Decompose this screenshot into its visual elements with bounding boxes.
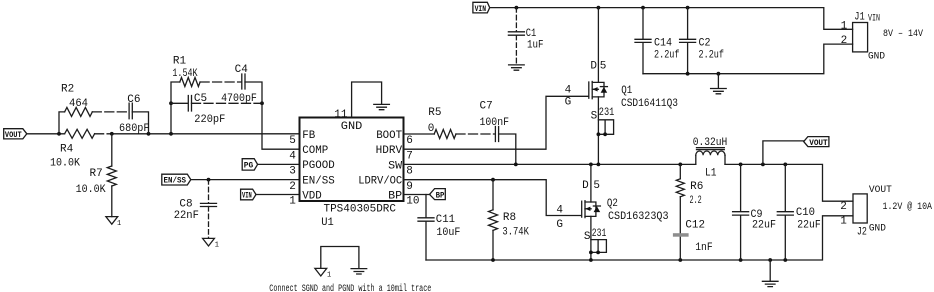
svg-text:C8: C8 — [179, 199, 192, 211]
inductor L1 — [693, 137, 728, 179]
svg-text:2: 2 — [289, 181, 296, 193]
ground (PGND rail) — [762, 260, 778, 287]
connector J2 — [853, 185, 932, 239]
svg-text:C12: C12 — [685, 219, 705, 231]
svg-text:C1: C1 — [526, 28, 537, 40]
svg-text:CSD16323Q3: CSD16323Q3 — [608, 211, 669, 223]
svg-text:22uF: 22uF — [797, 220, 821, 232]
svg-text:10.0K: 10.0K — [50, 157, 80, 169]
capacitor C8 — [174, 180, 217, 239]
svg-text:5: 5 — [593, 180, 600, 192]
svg-text:C14: C14 — [654, 38, 672, 50]
capacitor C2 — [680, 8, 724, 74]
svg-text:C10: C10 — [796, 207, 815, 219]
svg-text:VIN: VIN — [868, 14, 880, 25]
svg-text:1.54K: 1.54K — [172, 68, 197, 80]
wire EN/SS — [191, 179, 300, 181]
svg-text:100nF: 100nF — [480, 117, 510, 129]
node VIN tag (at VDD pin) — [241, 189, 256, 200]
svg-text:1: 1 — [840, 215, 847, 227]
svg-text:VOUT: VOUT — [5, 130, 22, 140]
svg-text:R5: R5 — [428, 107, 441, 119]
ground SGND (below C8) — [203, 238, 219, 249]
wire VIN top rail — [490, 8, 853, 30]
node VOUT tag (left) — [4, 129, 27, 140]
wire PGOOD — [258, 163, 300, 165]
ground (below C1) — [509, 65, 525, 70]
svg-text:G: G — [565, 97, 572, 109]
resistor R5 — [404, 107, 495, 139]
junction SW net dots — [514, 163, 787, 167]
wire GND pin 11 net — [352, 82, 382, 118]
capacitor C11 — [418, 195, 460, 261]
svg-text:S: S — [584, 231, 591, 243]
svg-text:GND: GND — [341, 121, 363, 133]
resistor R7 — [76, 134, 117, 217]
svg-text:C6: C6 — [127, 94, 140, 106]
svg-text:1: 1 — [289, 195, 296, 207]
svg-text:6: 6 — [406, 135, 413, 147]
junction LDRV/OC R8 tap — [491, 178, 495, 182]
capacitor C10 — [777, 164, 821, 260]
node VIN tag (top) — [473, 2, 490, 14]
svg-text:10uF: 10uF — [436, 227, 460, 239]
svg-text:1: 1 — [327, 272, 331, 280]
svg-text:R2: R2 — [61, 84, 74, 96]
svg-text:PGOOD: PGOOD — [302, 160, 335, 172]
junction PGND rail dots — [491, 258, 787, 262]
svg-text:2: 2 — [841, 35, 848, 47]
transistor Q2 — [582, 164, 669, 260]
op-amp U1 TPS40305DRC body — [300, 118, 404, 230]
capacitor C5 — [171, 93, 262, 126]
svg-text:VIN: VIN — [475, 4, 487, 14]
wire input ground rail — [643, 44, 853, 74]
svg-text:4700pF: 4700pF — [221, 93, 257, 105]
svg-text:R7: R7 — [90, 168, 103, 180]
pin S / 231 label (Q2 source pins) — [584, 228, 607, 254]
svg-text:3.74K: 3.74K — [502, 226, 529, 238]
ground (input rail) — [711, 74, 727, 94]
capacitor C14 — [635, 8, 680, 74]
svg-text:3: 3 — [289, 166, 296, 178]
junction VIN rail dots — [515, 6, 690, 10]
svg-text:220pF: 220pF — [194, 114, 225, 126]
capacitor C9 — [733, 164, 776, 260]
ground (pin 11) — [374, 104, 390, 109]
svg-text:EN/SS: EN/SS — [164, 176, 187, 186]
svg-text:VDD: VDD — [302, 190, 322, 202]
svg-text:TPS40305DRC: TPS40305DRC — [324, 203, 397, 215]
svg-text:C7: C7 — [480, 101, 493, 113]
connector J1 — [853, 12, 923, 63]
svg-text:EN/SS: EN/SS — [302, 176, 335, 188]
resistor R8 — [489, 180, 530, 260]
wire SW net — [404, 164, 853, 201]
capacitor C7 — [480, 101, 516, 165]
svg-text:C2: C2 — [699, 38, 711, 50]
junction FB net dots — [57, 132, 173, 136]
svg-text:10.0K: 10.0K — [76, 184, 106, 196]
svg-text:4: 4 — [556, 204, 563, 216]
svg-text:680pF: 680pF — [119, 123, 150, 135]
svg-text:D: D — [582, 180, 589, 192]
svg-text:D: D — [590, 60, 597, 72]
svg-text:C5: C5 — [194, 93, 207, 105]
wire R1/C5 network left vertical — [171, 82, 180, 134]
svg-text:L1: L1 — [705, 167, 717, 179]
svg-text:5: 5 — [600, 60, 607, 72]
wire SGND-PGND tie — [321, 247, 359, 269]
svg-text:22nF: 22nF — [174, 210, 199, 222]
svg-text:1: 1 — [215, 242, 219, 250]
ground SGND (tie, triangle) — [315, 268, 331, 279]
svg-text:BOOT: BOOT — [376, 130, 402, 142]
capacitor C12 — [673, 219, 713, 260]
svg-text:GND: GND — [869, 223, 886, 234]
svg-text:7: 7 — [406, 150, 413, 162]
junction COMP net right — [260, 101, 264, 105]
junction node at C5 row left — [169, 101, 173, 105]
node PG tag — [242, 159, 257, 171]
ground PGND (tie, bars) — [351, 269, 367, 274]
svg-text:FB: FB — [302, 130, 315, 142]
svg-text:R4: R4 — [60, 144, 74, 156]
svg-text:1: 1 — [117, 220, 121, 228]
svg-text:22uF: 22uF — [752, 219, 776, 231]
svg-text:1nF: 1nF — [695, 242, 713, 254]
capacitor C6 — [119, 94, 150, 135]
capacitor C1 — [508, 8, 543, 64]
svg-text:0.32uH: 0.32uH — [693, 137, 728, 149]
svg-text:8: 8 — [406, 166, 413, 178]
ground SGND (below R7) — [106, 217, 121, 228]
svg-text:Connect SGND and PGND with a 1: Connect SGND and PGND with a 10mil trace — [269, 283, 431, 292]
node EN/SS tag — [162, 174, 191, 185]
svg-text:PG: PG — [244, 160, 254, 170]
svg-text:2: 2 — [840, 201, 847, 213]
svg-text:C11: C11 — [436, 214, 456, 226]
resistor R4 — [50, 129, 95, 169]
svg-text:HDRV: HDRV — [376, 145, 403, 157]
svg-text:4: 4 — [289, 150, 296, 162]
wire COMP net (down to pin 4) — [262, 103, 300, 149]
svg-text:Q1: Q1 — [621, 85, 632, 97]
wire FB net (main horizontal line) — [27, 133, 300, 135]
svg-text:0: 0 — [428, 123, 435, 135]
svg-text:J1: J1 — [854, 12, 865, 24]
svg-text:9: 9 — [406, 181, 413, 193]
svg-text:Q2: Q2 — [607, 198, 618, 210]
svg-text:SW: SW — [388, 160, 402, 172]
svg-text:1uF: 1uF — [527, 40, 544, 52]
junction EN/SS C8 tap — [207, 178, 211, 182]
svg-text:2.2: 2.2 — [690, 195, 702, 207]
svg-text:231: 231 — [599, 107, 615, 119]
svg-text:464: 464 — [69, 98, 88, 110]
svg-text:VOUT: VOUT — [809, 138, 828, 148]
pin S / 231 label (Q1 source pins) — [591, 107, 615, 136]
svg-text:VIN: VIN — [242, 191, 252, 201]
wire LDRV/OC to Q2 gate — [404, 180, 582, 216]
svg-text:231: 231 — [592, 228, 607, 240]
svg-text:U1: U1 — [321, 217, 334, 229]
svg-text:BP: BP — [388, 191, 402, 203]
svg-text:C4: C4 — [235, 64, 249, 76]
svg-text:4: 4 — [565, 84, 572, 96]
svg-text:GND: GND — [868, 52, 885, 63]
svg-text:LDRV/OC: LDRV/OC — [358, 176, 402, 188]
resistor R6 — [676, 164, 703, 233]
svg-text:1.2V @ 10A: 1.2V @ 10A — [883, 201, 933, 213]
svg-text:R1: R1 — [173, 55, 187, 67]
svg-text:8V – 14V: 8V – 14V — [883, 29, 923, 40]
svg-text:1: 1 — [841, 20, 848, 32]
svg-text:5: 5 — [289, 135, 296, 147]
svg-text:2.2uf: 2.2uf — [699, 50, 725, 62]
svg-text:2.2uf: 2.2uf — [654, 50, 680, 62]
resistor R2 — [59, 84, 129, 134]
svg-text:VOUT: VOUT — [869, 185, 892, 196]
svg-text:G: G — [556, 219, 563, 231]
svg-text:S: S — [591, 111, 598, 123]
svg-text:CSD16411Q3: CSD16411Q3 — [621, 98, 678, 110]
svg-text:BP: BP — [436, 190, 445, 200]
resistor R1 — [172, 55, 241, 86]
capacitor C4 — [221, 64, 262, 105]
svg-text:11: 11 — [334, 109, 348, 121]
svg-text:COMP: COMP — [302, 145, 328, 157]
node VOUT tag (right) — [763, 137, 829, 165]
junction input ground rail dots — [686, 72, 721, 76]
node BP tag — [404, 189, 446, 201]
wire VDD — [256, 194, 300, 196]
svg-text:R8: R8 — [503, 212, 516, 224]
transistor Q1 — [589, 8, 678, 165]
wire PGND rail — [426, 216, 853, 260]
svg-text:10: 10 — [406, 196, 419, 208]
wire HDRV to Q1 gate — [404, 96, 589, 149]
svg-text:J2: J2 — [857, 227, 867, 239]
svg-text:R6: R6 — [690, 181, 703, 193]
